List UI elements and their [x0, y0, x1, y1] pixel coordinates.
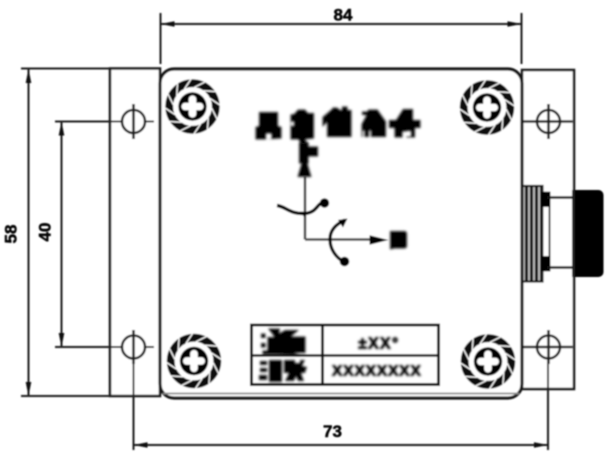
dimension 84	[160, 13, 522, 64]
flange hole top-left	[122, 104, 145, 139]
svg-text:40: 40	[36, 223, 55, 242]
connector knurled nut	[522, 186, 543, 282]
screw top-left	[165, 79, 220, 134]
dimension 40	[55, 122, 154, 348]
plate text range chars	[261, 329, 306, 356]
axis vertical line	[304, 177, 307, 240]
title character 1	[256, 112, 282, 140]
dimension 58	[21, 69, 160, 397]
axis vertical arrowhead	[298, 153, 312, 177]
flange hole bottom-right	[524, 330, 573, 364]
title character 4	[362, 110, 387, 138]
svg-text:58: 58	[2, 225, 21, 244]
body bottom seam line	[163, 393, 519, 395]
screw bottom-left	[166, 333, 221, 388]
left mounting flange	[110, 69, 160, 397]
screw top-right	[459, 80, 514, 135]
svg-text:XXXXXXXX: XXXXXXXX	[332, 363, 422, 380]
dimension 73	[133, 359, 549, 450]
svg-text:84: 84	[334, 6, 353, 25]
axis horizontal arrowhead	[370, 235, 389, 244]
screw bottom-right	[460, 334, 515, 389]
flange edge over connector	[572, 190, 574, 277]
title character 3	[323, 107, 352, 138]
connector step shoulder	[541, 192, 551, 271]
plate text serial chars	[259, 360, 307, 382]
rotation arrow around horizontal axis	[330, 219, 349, 267]
connector barrel outline	[547, 198, 573, 268]
connector black plug	[575, 190, 604, 277]
flange hole bottom-left	[122, 330, 145, 364]
svg-text:73: 73	[323, 422, 342, 441]
right mounting flange	[522, 70, 574, 389]
rotation arrow around vertical axis	[277, 198, 329, 217]
axis label X blob	[390, 231, 407, 250]
body outline	[160, 69, 522, 398]
flange hole top-right	[524, 104, 573, 139]
axis horizontal line	[305, 238, 372, 241]
svg-text:±XX°: ±XX°	[358, 336, 399, 353]
label plate vertical divider	[321, 325, 324, 385]
label plate horizontal divider	[252, 354, 439, 357]
label plate outline	[252, 325, 439, 385]
title character 2	[291, 110, 315, 145]
title character 5	[389, 109, 421, 138]
axis label Y blob	[299, 143, 318, 164]
